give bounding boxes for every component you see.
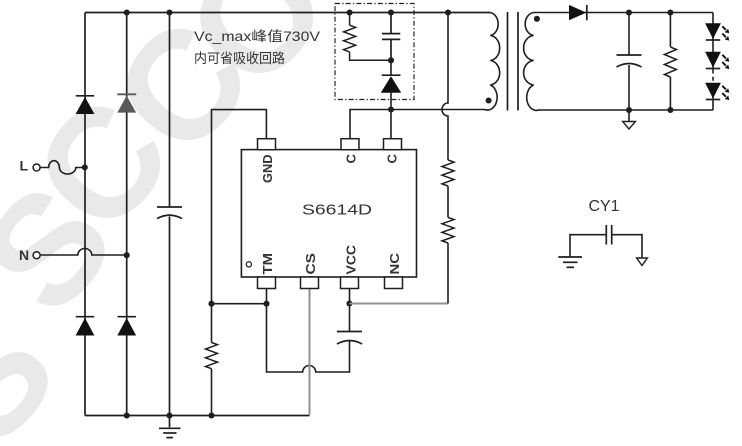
pin C2 box bbox=[384, 139, 402, 150]
svg-text:VCC: VCC bbox=[343, 244, 358, 274]
svg-text:S6614D: S6614D bbox=[302, 202, 372, 219]
transformer primary polarity dot bbox=[486, 97, 492, 103]
wire TM pin down, right with hop over CS, up to cap bottom bbox=[267, 289, 350, 373]
diode D-snubber (pointing up) bbox=[381, 60, 401, 109]
wire CS pin down to rail (gray) bbox=[309, 289, 311, 415]
transformer T1 primary winding bbox=[485, 13, 500, 111]
pin 1 indicator circle bbox=[246, 262, 251, 267]
diode D2 (bridge upper-right, gray) bbox=[117, 94, 136, 112]
svg-text:TM: TM bbox=[260, 253, 275, 275]
wire VCC pin down bbox=[349, 289, 351, 332]
node switch node (drain) bbox=[388, 106, 394, 112]
node N-junction bbox=[124, 252, 130, 258]
svg-text:Vc_max峰值730V: Vc_max峰值730V bbox=[194, 29, 320, 44]
wire bulk-cap branch lower bbox=[169, 217, 171, 416]
node TM junction bbox=[263, 301, 269, 307]
LED1 bbox=[705, 23, 721, 40]
pin NC box bbox=[385, 277, 403, 289]
LED3 arrows bbox=[722, 86, 729, 100]
pin TM box bbox=[258, 277, 276, 289]
wire N lead with hop over bridge leg 1 bbox=[41, 249, 127, 256]
watermark bbox=[0, 0, 362, 446]
input terminal L bbox=[20, 158, 41, 174]
fuse F1 (L lead squiggle) bbox=[40, 161, 84, 174]
wire chain vertical with left hop bbox=[442, 13, 448, 161]
diode D1 (bridge upper-left) bbox=[76, 96, 95, 114]
ground (earth, main bottom) bbox=[159, 416, 181, 438]
svg-text:NC: NC bbox=[387, 252, 402, 274]
capacitor CY1 bbox=[570, 225, 642, 258]
svg-text:C: C bbox=[343, 154, 358, 164]
wire bridge leg 2 bbox=[126, 13, 128, 416]
LED1 arrows bbox=[722, 26, 729, 40]
svg-text:N: N bbox=[19, 247, 29, 263]
wire R4 to rail bbox=[211, 369, 213, 416]
node out-cap top bbox=[626, 9, 632, 15]
wire LED string vertical bbox=[712, 13, 714, 111]
pin GND box bbox=[258, 139, 276, 150]
resistor R2 (chain upper) bbox=[442, 160, 454, 186]
node rail-leg2 bbox=[124, 412, 130, 418]
resistor R-out bbox=[664, 13, 676, 111]
svg-text:CS: CS bbox=[303, 253, 318, 275]
node snubber C top bbox=[388, 9, 394, 15]
capacitor C-vcc (polarized) bbox=[337, 332, 362, 345]
svg-text:L: L bbox=[20, 158, 29, 174]
diode D-out (output rectifier) bbox=[569, 5, 587, 20]
wire GND-pin loop bbox=[212, 110, 267, 343]
wire top rail bbox=[85, 12, 490, 14]
transformer core bbox=[508, 12, 519, 111]
wire secondary bottom rail bbox=[539, 109, 713, 111]
resistor R4 (TM/GND divider) bbox=[206, 343, 218, 369]
ground (earth, CY1 left) bbox=[558, 257, 582, 267]
node divider junction bbox=[208, 301, 214, 307]
node L-junction bbox=[82, 164, 88, 170]
ground (open triangle, CY1 right) bbox=[637, 258, 648, 266]
capacitor C-snubber bbox=[382, 13, 400, 61]
node snubber R top bbox=[347, 9, 353, 15]
svg-text:C: C bbox=[384, 154, 399, 164]
wire bulk-cap branch upper bbox=[169, 13, 171, 208]
pin CS box bbox=[301, 277, 319, 289]
node out-res bottom bbox=[667, 107, 673, 113]
ground (secondary signal gnd, open triangle) bbox=[623, 110, 636, 129]
node out-res top bbox=[667, 9, 673, 15]
pin VCC box bbox=[341, 277, 359, 289]
IC U1 S6614D body bbox=[241, 150, 416, 277]
svg-text:GND: GND bbox=[260, 155, 275, 184]
node rail-R4 bbox=[208, 412, 214, 418]
diode D4 (bridge lower-right) bbox=[117, 317, 136, 336]
capacitor C-out (polarized) bbox=[617, 13, 642, 111]
wire left vertical (bridge leg 1) bbox=[84, 13, 86, 416]
pin C1 box bbox=[341, 139, 359, 150]
wire VCC to resistor chain (gray) bbox=[350, 303, 449, 305]
node top rail cap branch bbox=[166, 9, 172, 15]
LED3 bbox=[705, 83, 721, 100]
input terminal N bbox=[19, 247, 40, 263]
node top rail leg2 bbox=[124, 9, 130, 15]
transformer secondary polarity dot bbox=[534, 16, 540, 22]
wire chain bottom to VCC node bbox=[447, 243, 449, 304]
diode D3 (bridge lower-left) bbox=[76, 317, 95, 336]
node VCC junction bbox=[346, 300, 352, 306]
LED2 bbox=[705, 52, 721, 69]
wire bottom rail bbox=[85, 415, 310, 417]
wire node211 to TM node bbox=[212, 303, 267, 305]
wire node to C pins bbox=[350, 110, 391, 139]
node top rail chain bbox=[445, 9, 451, 15]
capacitor C-bulk (polarized, after bridge) bbox=[157, 207, 182, 219]
transformer T1 secondary winding bbox=[524, 13, 540, 111]
wire between chain resistors bbox=[447, 186, 449, 217]
svg-text:内可省吸收回路: 内可省吸收回路 bbox=[194, 51, 285, 66]
node snubber RC junction bbox=[388, 57, 394, 63]
LED2 arrows bbox=[722, 55, 729, 69]
wire secondary top rail bbox=[534, 12, 714, 14]
snubber box (dash-dot) bbox=[335, 4, 414, 100]
node out-cap bottom bbox=[626, 107, 632, 113]
resistor R-snubber bbox=[344, 13, 391, 61]
svg-text:CY1: CY1 bbox=[589, 198, 620, 215]
wire node to transformer primary bottom bbox=[391, 109, 485, 111]
node rail-cap bbox=[166, 412, 172, 418]
resistor R3 (chain lower) bbox=[442, 217, 454, 243]
